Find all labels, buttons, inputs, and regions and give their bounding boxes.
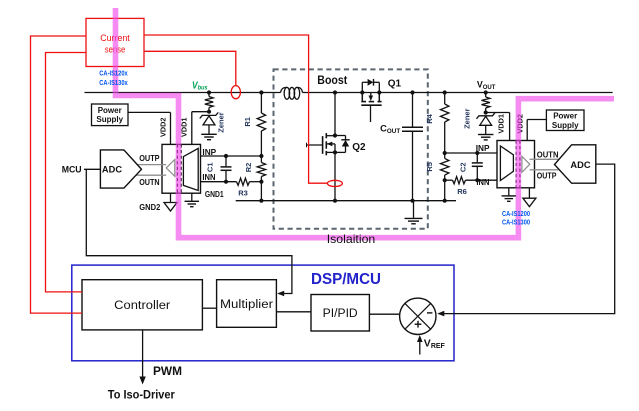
svg-text:R5: R5 <box>425 162 434 172</box>
svg-text:DSP/MCU: DSP/MCU <box>311 271 381 288</box>
svg-text:Isolaition: Isolaition <box>327 232 376 246</box>
svg-text:C1: C1 <box>206 163 215 173</box>
svg-text:ADC: ADC <box>570 160 590 170</box>
svg-text:VDD1: VDD1 <box>497 114 506 133</box>
svg-text:Q1: Q1 <box>388 78 402 89</box>
svg-text:Q2: Q2 <box>352 142 366 153</box>
svg-text:PWM: PWM <box>153 366 182 378</box>
svg-text:INN: INN <box>476 177 489 187</box>
svg-text:CA-IS1200: CA-IS1200 <box>502 211 530 218</box>
svg-text:R2: R2 <box>244 163 253 173</box>
svg-text:R1: R1 <box>243 117 252 127</box>
svg-text:MCU: MCU <box>62 165 82 175</box>
svg-text:ADC: ADC <box>102 165 122 175</box>
svg-text:OUTN: OUTN <box>537 149 559 159</box>
svg-text:CA-IS1300: CA-IS1300 <box>502 220 530 227</box>
svg-text:Power: Power <box>553 112 577 121</box>
svg-text:R3: R3 <box>238 188 248 197</box>
svg-text:Zener: Zener <box>463 108 472 129</box>
svg-text:Controller: Controller <box>114 300 170 312</box>
svg-text:INP: INP <box>476 143 490 153</box>
svg-text:R4: R4 <box>425 113 434 123</box>
svg-text:OUTP: OUTP <box>139 153 160 163</box>
svg-text:PI/PID: PI/PID <box>323 308 358 320</box>
svg-text:CA-IS120x: CA-IS120x <box>99 71 128 78</box>
svg-text:INP: INP <box>202 147 216 157</box>
svg-text:Zener: Zener <box>217 112 226 133</box>
svg-text:VDD2: VDD2 <box>159 118 168 137</box>
svg-text:Multiplier: Multiplier <box>220 299 273 311</box>
svg-text:R6: R6 <box>457 187 467 196</box>
svg-text:CA-IS130x: CA-IS130x <box>99 80 128 87</box>
svg-text:Boost: Boost <box>317 75 347 87</box>
svg-text:C2: C2 <box>458 163 467 173</box>
svg-text:INN: INN <box>202 172 215 182</box>
svg-text:GND1: GND1 <box>205 189 224 199</box>
svg-text:Power: Power <box>98 106 122 115</box>
svg-text:OUTN: OUTN <box>139 177 159 187</box>
svg-text:GND2: GND2 <box>139 202 160 212</box>
svg-text:To Iso-Driver: To Iso-Driver <box>108 389 176 401</box>
svg-text:Supply: Supply <box>552 121 579 130</box>
svg-text:Supply: Supply <box>96 115 123 124</box>
svg-text:OUTP: OUTP <box>537 171 557 181</box>
